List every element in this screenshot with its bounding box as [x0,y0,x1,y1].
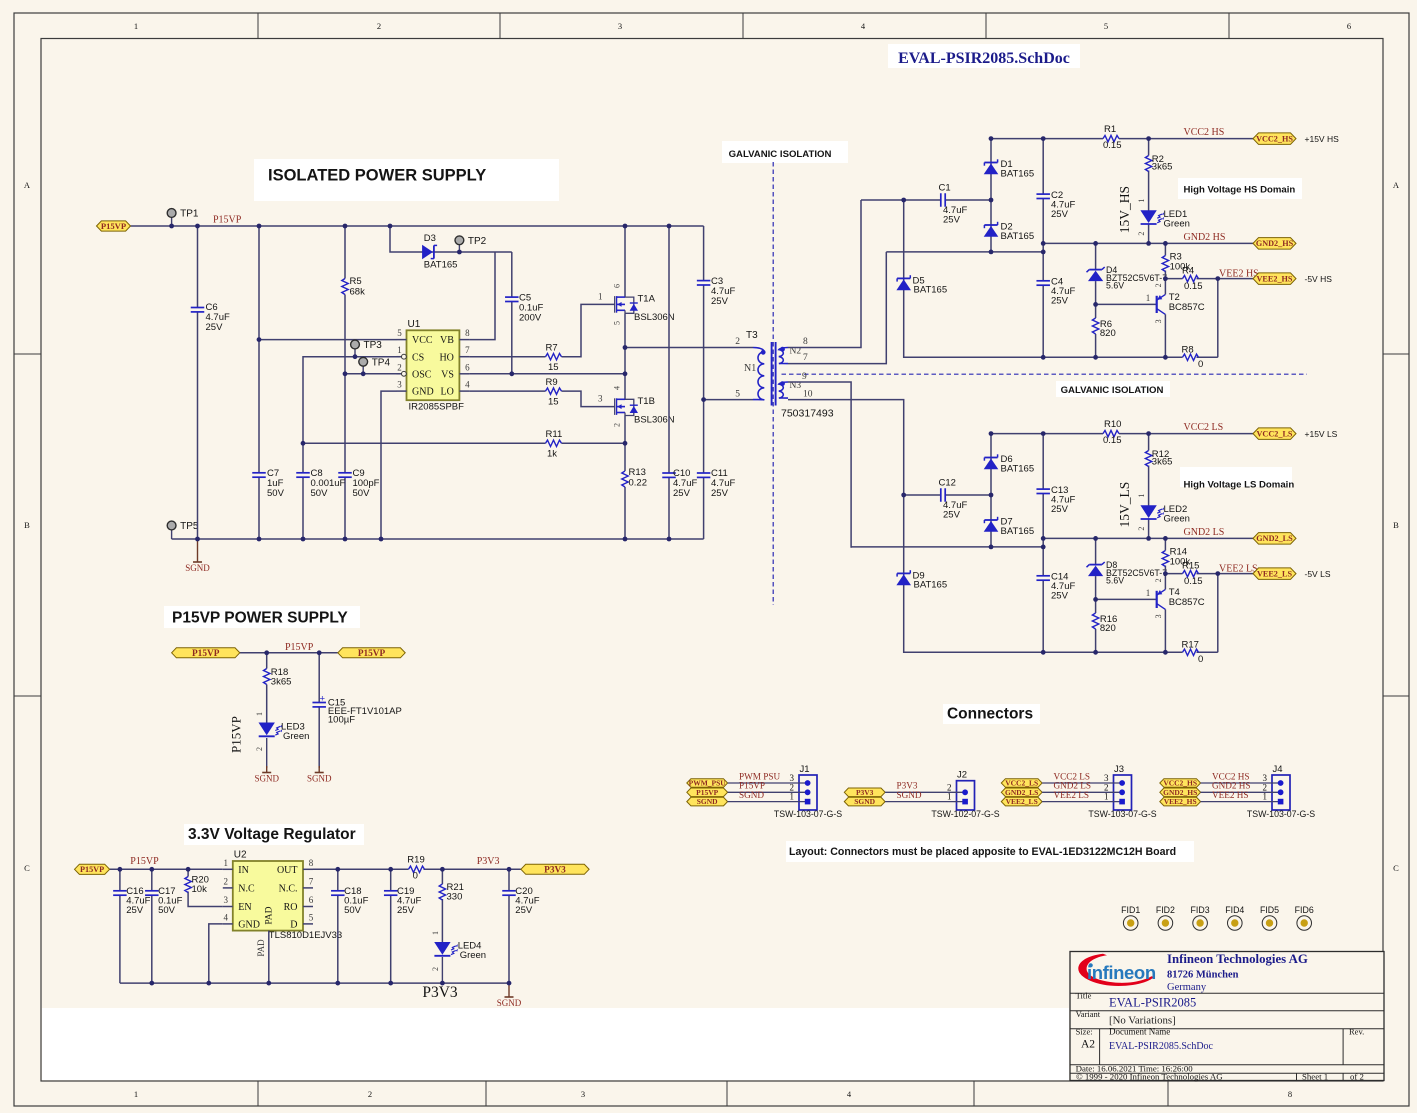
svg-text:Green: Green [283,731,309,742]
svg-text:P15VP: P15VP [696,788,718,797]
svg-text:P15VP: P15VP [358,649,386,659]
svg-text:0: 0 [1198,654,1203,665]
svg-text:HO: HO [439,352,453,363]
svg-text:SGND: SGND [185,563,210,573]
svg-text:R10: R10 [1104,419,1121,430]
svg-text:BAT165: BAT165 [914,580,948,591]
svg-text:2: 2 [613,423,622,427]
svg-text:VCC: VCC [412,335,433,346]
svg-text:EVAL-PSIR2085.SchDoc: EVAL-PSIR2085.SchDoc [898,50,1070,67]
svg-text:200V: 200V [519,313,542,324]
svg-text:15V_HS: 15V_HS [1117,186,1132,233]
svg-text:Infineon Technologies AG: Infineon Technologies AG [1167,952,1308,966]
svg-text:330: 330 [447,892,463,903]
svg-text:J2: J2 [957,770,967,781]
svg-text:1: 1 [134,1089,138,1099]
svg-text:Variant: Variant [1076,1009,1101,1019]
svg-text:J1: J1 [800,764,810,775]
svg-text:VCC2_LS: VCC2_LS [1005,779,1038,788]
svg-text:TSW-102-07-G-S: TSW-102-07-G-S [931,809,999,819]
svg-text:VCC2_HS: VCC2_HS [1256,134,1293,143]
svg-text:P15VP: P15VP [229,716,244,753]
svg-text:6: 6 [465,362,470,372]
svg-text:VCC2 LS: VCC2 LS [1184,422,1224,433]
svg-text:0: 0 [1198,359,1203,370]
svg-text:TSW-103-07-G-S: TSW-103-07-G-S [1247,809,1315,819]
svg-text:R19: R19 [407,855,424,866]
svg-text:2: 2 [397,362,402,372]
svg-text:6: 6 [1347,21,1351,31]
svg-text:50V: 50V [311,488,329,499]
svg-text:GND: GND [412,387,434,398]
svg-text:50V: 50V [353,488,371,499]
svg-text:3: 3 [224,895,229,905]
svg-text:RO: RO [284,902,298,913]
svg-text:5.6V: 5.6V [1106,280,1124,290]
svg-text:0.15: 0.15 [1103,435,1122,446]
svg-text:7: 7 [309,876,314,886]
svg-text:25V: 25V [711,296,729,307]
svg-text:of 2: of 2 [1350,1072,1364,1082]
svg-text:7: 7 [803,353,808,363]
svg-text:SGND: SGND [739,790,764,800]
svg-text:15: 15 [548,362,559,373]
svg-text:PWM_PSU: PWM_PSU [689,779,727,788]
svg-text:0.15: 0.15 [1184,576,1203,587]
svg-text:C: C [1393,863,1399,873]
svg-text:FID5: FID5 [1260,905,1279,915]
svg-text:VCC2_HS: VCC2_HS [1163,779,1197,788]
svg-text:GALVANIC ISOLATION: GALVANIC ISOLATION [1061,385,1164,396]
svg-text:T1B: T1B [638,396,655,407]
svg-text:820: 820 [1100,623,1116,634]
svg-text:25V: 25V [711,488,729,499]
svg-text:2: 2 [1137,527,1146,531]
svg-text:BAT165: BAT165 [1001,464,1035,475]
svg-text:1: 1 [790,792,795,802]
svg-text:25V: 25V [673,488,691,499]
svg-text:2: 2 [1154,578,1163,582]
svg-text:VEE2 HS: VEE2 HS [1219,268,1259,279]
svg-text:+15V HS: +15V HS [1305,134,1340,144]
svg-text:D3: D3 [424,233,436,244]
svg-text:R11: R11 [546,429,563,440]
svg-text:0.15: 0.15 [1103,140,1122,151]
svg-text:T3: T3 [746,330,758,341]
svg-text:N1: N1 [744,363,756,374]
svg-text:ISOLATED POWER SUPPLY: ISOLATED POWER SUPPLY [268,167,486,185]
svg-text:2: 2 [431,967,440,971]
svg-text:3: 3 [1154,319,1163,323]
svg-text:P15VP POWER SUPPLY: P15VP POWER SUPPLY [172,610,348,627]
svg-text:SGND: SGND [697,797,718,806]
svg-text:Germany: Germany [1167,982,1207,993]
svg-text:50V: 50V [267,488,285,499]
svg-text:1: 1 [1146,588,1151,598]
svg-text:U2: U2 [234,850,247,861]
svg-text:3: 3 [397,380,402,390]
svg-text:PAD: PAD [256,939,266,957]
svg-text:2: 2 [224,876,229,886]
svg-text:25V: 25V [126,905,144,916]
svg-text:3.3V Voltage Regulator: 3.3V Voltage Regulator [188,826,356,843]
svg-text:T1A: T1A [638,294,656,305]
svg-text:5: 5 [735,390,740,400]
svg-text:GND2_LS: GND2_LS [1256,534,1293,543]
svg-text:High Voltage HS Domain: High Voltage HS Domain [1184,185,1296,196]
svg-text:BC857C: BC857C [1169,302,1205,313]
svg-text:GALVANIC ISOLATION: GALVANIC ISOLATION [729,149,832,160]
svg-text:BC857C: BC857C [1169,597,1205,608]
svg-text:GND2 LS: GND2 LS [1184,527,1225,538]
svg-text:P15VP: P15VP [101,221,126,231]
svg-text:VCC2 HS: VCC2 HS [1184,127,1225,138]
svg-text:1k: 1k [547,449,557,460]
svg-text:0.15: 0.15 [1184,281,1203,292]
svg-text:1: 1 [1104,792,1109,802]
svg-text:High Voltage LS Domain: High Voltage LS Domain [1184,480,1295,491]
svg-text:R9: R9 [546,377,558,388]
svg-text:3k65: 3k65 [1152,162,1173,173]
svg-text:4: 4 [224,912,229,922]
svg-text:3k65: 3k65 [271,677,292,688]
svg-text:TSW-103-07-G-S: TSW-103-07-G-S [1088,809,1156,819]
svg-text:VS: VS [441,369,454,380]
svg-text:[No Variations]: [No Variations] [1109,1015,1176,1027]
svg-text:TP5: TP5 [180,521,199,532]
svg-text:-5V HS: -5V HS [1305,274,1333,284]
svg-text:2: 2 [1137,232,1146,236]
svg-text:25V: 25V [943,510,961,521]
svg-text:C12: C12 [939,478,956,489]
svg-text:GND2_HS: GND2_HS [1163,788,1197,797]
svg-text:J4: J4 [1273,764,1283,775]
svg-text:N.C.: N.C. [279,884,298,895]
svg-text:P3V3: P3V3 [422,984,458,1001]
svg-text:P15VP: P15VP [130,856,159,867]
svg-text:3: 3 [581,1089,585,1099]
svg-text:+15V LS: +15V LS [1305,429,1338,439]
svg-text:BAT165: BAT165 [1001,526,1035,537]
svg-text:0: 0 [413,871,418,882]
svg-text:Size:: Size: [1076,1027,1093,1037]
svg-text:50V: 50V [158,905,176,916]
svg-text:FID2: FID2 [1156,905,1175,915]
svg-text:3: 3 [618,21,622,31]
svg-text:SGND: SGND [254,774,279,784]
svg-text:VEE2_HS: VEE2_HS [1164,797,1197,806]
svg-text:15V_LS: 15V_LS [1117,482,1132,528]
svg-text:SGND: SGND [307,774,332,784]
svg-text:8: 8 [1288,1089,1292,1099]
svg-text:750317493: 750317493 [781,408,834,420]
svg-text:1: 1 [431,931,440,935]
svg-text:VEE2_LS: VEE2_LS [1006,797,1038,806]
svg-text:TP1: TP1 [180,209,199,220]
svg-text:25V: 25V [943,215,961,226]
svg-text:2: 2 [735,337,740,347]
svg-text:R17: R17 [1182,640,1199,651]
svg-text:P15VP: P15VP [192,649,220,659]
svg-text:U1: U1 [408,319,421,330]
svg-text:5: 5 [397,328,402,338]
svg-text:7: 7 [465,345,470,355]
svg-text:Title: Title [1076,991,1092,1001]
svg-text:J3: J3 [1114,764,1124,775]
svg-text:9: 9 [802,372,807,382]
svg-text:VCC2_LS: VCC2_LS [1257,429,1293,438]
svg-text:R4: R4 [1182,266,1194,277]
svg-text:R15: R15 [1182,561,1199,572]
svg-text:2: 2 [255,747,264,751]
svg-text:TP2: TP2 [468,236,487,247]
svg-text:25V: 25V [1051,504,1069,515]
svg-text:68k: 68k [350,287,366,298]
svg-text:GND2_HS: GND2_HS [1256,239,1294,248]
svg-text:8: 8 [465,328,470,338]
svg-text:IR2085SPBF: IR2085SPBF [409,402,465,413]
svg-text:1: 1 [1263,792,1268,802]
svg-text:81726 München: 81726 München [1167,970,1239,981]
svg-text:P3V3: P3V3 [544,865,566,875]
svg-text:1: 1 [1146,293,1151,303]
svg-text:A: A [24,180,31,190]
svg-text:P15VP: P15VP [285,642,314,653]
svg-text:2: 2 [1154,283,1163,287]
svg-text:4: 4 [465,380,470,390]
svg-text:TP4: TP4 [372,357,391,368]
svg-text:VEE2_LS: VEE2_LS [1257,569,1292,578]
svg-text:5.6V: 5.6V [1106,575,1124,585]
svg-text:A2: A2 [1081,1039,1095,1051]
svg-text:5: 5 [1104,21,1108,31]
svg-text:25V: 25V [1051,296,1069,307]
svg-text:OSC: OSC [412,369,432,380]
svg-text:25V: 25V [1051,591,1069,602]
svg-text:P3V3: P3V3 [856,788,874,797]
svg-text:6: 6 [613,284,622,288]
svg-text:infineon: infineon [1087,962,1156,983]
svg-text:© 1999 - 2020 Infineon Technol: © 1999 - 2020 Infineon Technologies AG [1076,1072,1223,1082]
svg-text:25V: 25V [397,905,415,916]
svg-text:8: 8 [309,858,314,868]
svg-text:3: 3 [598,394,603,404]
svg-text:100µF: 100µF [328,715,355,726]
svg-text:VEE2 LS: VEE2 LS [1054,790,1089,800]
svg-text:P15VP: P15VP [213,215,242,226]
svg-text:FID4: FID4 [1225,905,1244,915]
svg-text:3k65: 3k65 [1152,457,1173,468]
svg-text:N.C: N.C [238,884,255,895]
svg-text:R5: R5 [350,276,362,287]
svg-text:Rev.: Rev. [1349,1027,1364,1037]
svg-text:Green: Green [1164,514,1190,525]
svg-text:1: 1 [134,21,138,31]
svg-text:50V: 50V [344,905,362,916]
svg-text:EVAL-PSIR2085: EVAL-PSIR2085 [1109,996,1196,1010]
svg-text:CS: CS [412,352,424,363]
svg-text:C1: C1 [939,183,951,194]
svg-text:6: 6 [309,895,314,905]
svg-text:SGND: SGND [897,790,922,800]
svg-text:R13: R13 [629,467,646,478]
svg-text:EVAL-PSIR2085.SchDoc: EVAL-PSIR2085.SchDoc [1109,1041,1214,1052]
svg-text:15: 15 [548,397,559,408]
svg-text:D: D [290,920,297,931]
svg-text:8: 8 [803,337,808,347]
svg-text:VB: VB [440,335,454,346]
svg-text:TP3: TP3 [364,340,383,351]
svg-text:BAT165: BAT165 [1001,169,1035,180]
svg-text:GND2_LS: GND2_LS [1005,788,1038,797]
svg-text:-5V LS: -5V LS [1305,569,1331,579]
svg-text:PAD: PAD [264,906,274,924]
svg-text:OUT: OUT [277,865,298,876]
svg-text:BAT165: BAT165 [914,285,948,296]
svg-text:R8: R8 [1182,345,1194,356]
svg-text:10: 10 [803,390,813,400]
svg-text:TSW-103-07-G-S: TSW-103-07-G-S [774,809,842,819]
svg-text:FID6: FID6 [1295,905,1314,915]
svg-text:25V: 25V [1051,209,1069,220]
svg-text:5: 5 [613,321,622,325]
svg-text:VEE2 LS: VEE2 LS [1219,563,1258,574]
svg-text:1: 1 [224,858,229,868]
svg-text:C: C [24,863,30,873]
svg-text:25V: 25V [206,322,224,333]
svg-text:25V: 25V [515,905,533,916]
svg-text:2: 2 [368,1089,372,1099]
svg-text:FID3: FID3 [1191,905,1210,915]
svg-text:Document Name: Document Name [1109,1027,1170,1037]
svg-text:1: 1 [598,292,603,302]
svg-text:VEE2 HS: VEE2 HS [1212,790,1249,800]
svg-text:1: 1 [947,792,952,802]
svg-text:LO: LO [441,387,454,398]
svg-text:FID1: FID1 [1121,905,1140,915]
svg-text:2: 2 [377,21,381,31]
svg-text:SGND: SGND [497,998,522,1008]
svg-text:IN: IN [238,865,249,876]
svg-text:1: 1 [397,345,402,355]
svg-text:10k: 10k [192,884,208,895]
svg-text:P15VP: P15VP [80,865,104,874]
svg-text:4: 4 [613,386,622,390]
svg-text:+: + [320,694,326,705]
svg-text:SGND: SGND [854,797,875,806]
svg-text:1: 1 [1137,494,1146,498]
svg-text:R1: R1 [1104,124,1116,135]
svg-text:5: 5 [309,912,314,922]
svg-text:GND2 HS: GND2 HS [1184,232,1226,243]
svg-text:EN: EN [238,902,251,913]
svg-text:TLS810D1EJV33: TLS810D1EJV33 [269,930,342,941]
svg-text:3: 3 [1154,614,1163,618]
svg-text:A: A [1393,180,1400,190]
svg-text:Sheet 1: Sheet 1 [1302,1072,1328,1082]
svg-text:0.22: 0.22 [629,478,648,489]
svg-text:BAT165: BAT165 [424,260,458,271]
svg-text:1: 1 [255,712,264,716]
svg-text:1: 1 [1137,199,1146,203]
svg-text:BAT165: BAT165 [1001,231,1035,242]
svg-text:Layout: Connectors must be pla: Layout: Connectors must be placed apposi… [789,846,1176,858]
svg-text:Connectors: Connectors [947,706,1033,723]
svg-text:VEE2_HS: VEE2_HS [1257,274,1293,283]
svg-text:GND: GND [238,920,260,931]
svg-text:B: B [1393,520,1399,530]
svg-text:B: B [24,520,30,530]
svg-text:R7: R7 [546,343,558,354]
svg-text:Green: Green [460,950,486,961]
svg-text:P3V3: P3V3 [477,856,500,867]
svg-text:820: 820 [1100,328,1116,339]
svg-text:Green: Green [1164,219,1190,230]
